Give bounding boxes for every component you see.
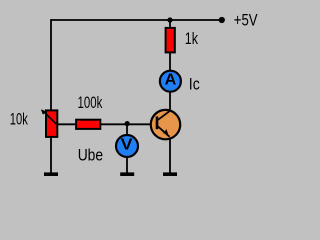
voltmeter U V (blue circle) <box>116 135 138 157</box>
wire left vertical through potentiometer to ground <box>50 19 52 174</box>
svg-text:V: V <box>121 136 134 153</box>
svg-text:+5V: +5V <box>234 11 258 29</box>
potentiometer wiper diagonal <box>44 112 57 125</box>
ground under potentiometer <box>44 172 58 176</box>
wire voltmeter branch down to ground <box>126 124 128 174</box>
transistor emitter arrowhead <box>163 129 168 134</box>
node: +5V terminal dot <box>219 17 225 23</box>
svg-text:Ube: Ube <box>78 146 103 164</box>
transistor base bar <box>156 117 159 130</box>
wire right vertical +5V rail through 1k, ammeter, transistor to ground <box>169 19 171 174</box>
ammeter U A (blue circle) <box>160 71 181 92</box>
transistor emitter stroke <box>158 126 170 137</box>
resistor R 1k (vertical, red) <box>166 28 175 53</box>
transistor collector stroke <box>158 111 171 120</box>
ground under emitter <box>163 172 177 176</box>
transistor Q1 (NPN, orange circle) <box>151 110 180 139</box>
potentiometer P 10k (vertical, red, with wiper arrow) <box>46 110 57 136</box>
node: junction of 1k with +5V rail <box>167 17 172 22</box>
ground under voltmeter <box>120 172 134 176</box>
svg-text:A: A <box>165 72 177 89</box>
svg-text:100k: 100k <box>78 94 103 112</box>
svg-text:Ic: Ic <box>189 75 200 93</box>
resistor R 100k (horizontal, red) <box>76 120 100 129</box>
potentiometer wiper arrowhead <box>41 109 46 114</box>
svg-text:1k: 1k <box>185 30 199 48</box>
node: junction of 100k, voltmeter and base <box>125 121 130 126</box>
wire top rail from left corner to +5V dot <box>51 19 222 21</box>
wire base row: pot wiper to 100k to transistor base <box>57 123 153 125</box>
svg-text:10k: 10k <box>10 111 29 129</box>
